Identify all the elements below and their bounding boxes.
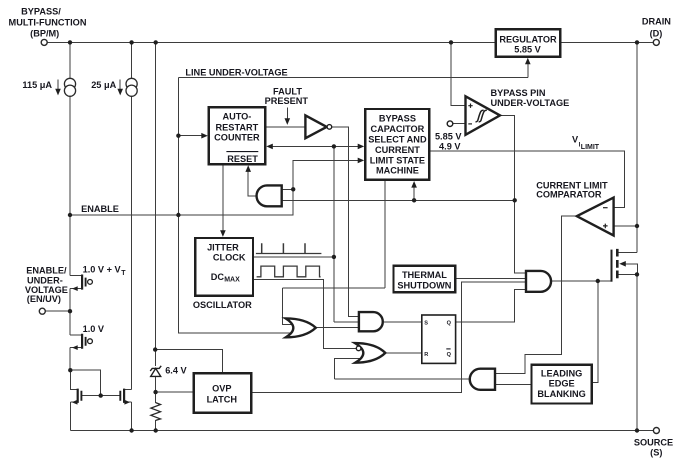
- svg-text:(BP/M): (BP/M): [30, 29, 59, 39]
- svg-text:DRAIN: DRAIN: [642, 16, 671, 26]
- svg-text:1.0 V: 1.0 V: [83, 324, 105, 334]
- svg-text:MULTI-FUNCTION: MULTI-FUNCTION: [9, 18, 87, 28]
- svg-text:THERMAL: THERMAL: [402, 270, 447, 280]
- svg-text:MACHINE: MACHINE: [376, 166, 419, 176]
- svg-text:EDGE: EDGE: [549, 379, 575, 389]
- svg-text:DC: DC: [211, 272, 225, 282]
- svg-text:Q: Q: [447, 352, 452, 358]
- svg-text:CLOCK: CLOCK: [213, 253, 246, 263]
- svg-text:R: R: [424, 352, 428, 358]
- svg-text:SELECT AND: SELECT AND: [368, 134, 427, 144]
- svg-text:LIMIT: LIMIT: [581, 144, 600, 151]
- svg-text:OSCILLATOR: OSCILLATOR: [193, 300, 252, 310]
- svg-text:SOURCE: SOURCE: [634, 438, 673, 448]
- svg-text:5.85 V: 5.85 V: [435, 132, 462, 142]
- svg-text:ENABLE/: ENABLE/: [26, 266, 67, 276]
- svg-text:JITTER: JITTER: [207, 242, 239, 252]
- svg-text:CAPACITOR: CAPACITOR: [371, 124, 425, 134]
- svg-text:115 μA: 115 μA: [22, 80, 52, 90]
- svg-text:T: T: [121, 270, 126, 277]
- svg-text:RESTART: RESTART: [216, 122, 259, 132]
- svg-text:BYPASS PIN: BYPASS PIN: [491, 88, 546, 98]
- svg-text:5.85 V: 5.85 V: [514, 45, 541, 55]
- svg-text:COUNTER: COUNTER: [214, 132, 260, 142]
- svg-text:(EN/UV): (EN/UV): [27, 294, 61, 304]
- svg-text:BYPASS: BYPASS: [379, 114, 416, 124]
- svg-text:Q: Q: [447, 321, 452, 327]
- svg-text:ENABLE: ENABLE: [81, 204, 119, 214]
- svg-text:UNDER-VOLTAGE: UNDER-VOLTAGE: [491, 98, 570, 108]
- svg-text:BLANKING: BLANKING: [537, 389, 586, 399]
- svg-text:SHUTDOWN: SHUTDOWN: [397, 280, 451, 290]
- svg-text:LATCH: LATCH: [207, 395, 238, 405]
- svg-text:6.4 V: 6.4 V: [165, 366, 187, 376]
- svg-text:BYPASS/: BYPASS/: [21, 7, 61, 17]
- svg-text:LINE UNDER-VOLTAGE: LINE UNDER-VOLTAGE: [185, 68, 287, 78]
- svg-text:RESET: RESET: [227, 154, 258, 164]
- svg-text:REGULATOR: REGULATOR: [499, 34, 557, 44]
- svg-text:PRESENT: PRESENT: [265, 96, 309, 106]
- svg-text:LEADING: LEADING: [541, 368, 582, 378]
- svg-text:AUTO-: AUTO-: [222, 111, 251, 121]
- svg-text:COMPARATOR: COMPARATOR: [536, 190, 602, 200]
- svg-text:MAX: MAX: [224, 277, 240, 284]
- svg-text:LIMIT STATE: LIMIT STATE: [370, 155, 425, 165]
- svg-text:(D): (D): [650, 29, 663, 39]
- svg-text:CURRENT: CURRENT: [375, 145, 420, 155]
- svg-text:25 μA: 25 μA: [91, 80, 116, 90]
- svg-text:4.9 V: 4.9 V: [439, 142, 461, 152]
- svg-text:(S): (S): [650, 448, 662, 458]
- svg-text:1.0 V + V: 1.0 V + V: [83, 265, 122, 275]
- svg-text:S: S: [424, 321, 428, 327]
- svg-text:OVP: OVP: [212, 383, 231, 393]
